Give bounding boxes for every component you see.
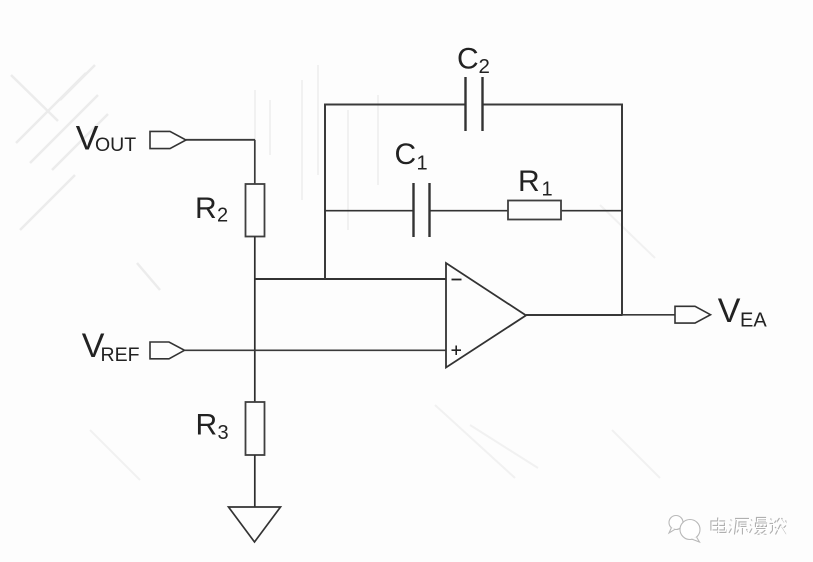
output wire: [526, 314, 623, 316]
svg-text:OUT: OUT: [95, 134, 136, 156]
svg-text:2: 2: [479, 55, 490, 78]
svg-text:2: 2: [217, 205, 228, 227]
watermark background pattern: [11, 65, 160, 290]
connector V_EA: [675, 306, 711, 323]
feedback box left vertical: [324, 105, 326, 280]
op-amp minus sign: [452, 279, 462, 281]
svg-text:3: 3: [218, 422, 229, 444]
op-amp U1: [446, 263, 526, 368]
label R3: [196, 409, 229, 445]
label C1: [395, 138, 428, 175]
resistor R3: [246, 402, 265, 455]
label R1: [518, 165, 553, 201]
svg-text:1: 1: [542, 179, 553, 201]
wire junction to V_EA connector: [622, 314, 675, 316]
wire R3 to ground: [254, 455, 256, 507]
op-amp plus sign: [452, 346, 462, 356]
ground: [229, 507, 281, 542]
logo text: 谈: [770, 518, 788, 535]
logo icon (chat bubbles): [669, 516, 700, 543]
wire V_OUT to node: [186, 139, 255, 141]
svg-text:R: R: [518, 165, 540, 198]
label V_EA: [718, 292, 768, 332]
wire vertical V_OUT down to R2: [254, 140, 256, 184]
connector V_REF: [150, 342, 185, 359]
middle wire (C1 + R1 branch): [325, 210, 622, 212]
svg-text:1: 1: [417, 153, 428, 175]
label R2: [195, 192, 228, 227]
label V_OUT: [76, 119, 136, 157]
logo text: 源: [729, 519, 749, 535]
feedback right vertical: [621, 105, 623, 315]
svg-text:C: C: [457, 43, 479, 76]
logo text: 漫: [750, 518, 767, 535]
wire node to op-amp minus: [255, 278, 446, 280]
svg-text:C: C: [395, 138, 417, 171]
wire R2 to R3 (main vertical): [254, 237, 256, 403]
svg-text:REF: REF: [101, 344, 140, 366]
capacitor C2: [466, 77, 483, 131]
resistor R1: [508, 201, 561, 220]
logo text: 电: [711, 518, 726, 533]
label C2: [457, 43, 490, 78]
wire V_REF to op-amp plus: [185, 349, 447, 351]
feedback top wire (C2 branch): [324, 104, 623, 106]
svg-text:R: R: [195, 192, 217, 225]
resistor R2: [246, 184, 265, 237]
svg-text:V: V: [718, 292, 741, 330]
svg-text:R: R: [196, 409, 218, 442]
connector V_OUT: [150, 131, 186, 148]
label V_REF: [82, 327, 140, 366]
capacitor C1: [414, 183, 430, 237]
svg-text:EA: EA: [740, 310, 767, 332]
